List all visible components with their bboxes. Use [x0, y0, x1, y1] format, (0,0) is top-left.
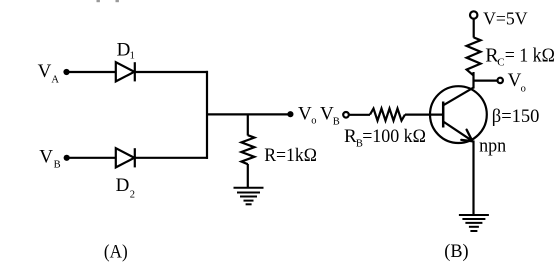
wire VB terminal to RB: [349, 114, 370, 116]
cropped caption mark right: [116, 0, 119, 2]
svg-text:(B): (B): [444, 241, 468, 262]
svg-text:2: 2: [130, 190, 135, 201]
wire RB to base: [405, 113, 443, 115]
label VA: [38, 61, 60, 86]
diode D1: [116, 62, 135, 81]
node Vo output: [287, 111, 293, 117]
svg-text:(A): (A): [104, 242, 128, 263]
svg-text:V=5V: V=5V: [483, 8, 527, 28]
svg-text:V: V: [298, 104, 312, 125]
wire RC to supply terminal: [473, 20, 475, 38]
label VB (A): [39, 146, 60, 170]
wire RC to collector: [472, 72, 474, 89]
svg-text:o: o: [521, 83, 526, 94]
label RC value: [485, 45, 555, 69]
wire Vo branch: [474, 79, 498, 81]
node VA input terminal: [63, 69, 69, 75]
wire VB to D2: [67, 157, 116, 159]
terminal VB (B): [343, 112, 349, 118]
svg-text:npn: npn: [479, 135, 507, 156]
wire D1 to bus: [135, 71, 208, 73]
svg-text:V: V: [38, 61, 52, 82]
wire resistor R bottom: [247, 164, 249, 188]
cropped caption mark left: [97, 0, 100, 2]
svg-text:A: A: [51, 75, 59, 86]
svg-text:β=150: β=150: [492, 106, 540, 127]
transistor Q1 (npn): [430, 86, 487, 143]
wire output horizontal: [207, 113, 290, 115]
node VB input terminal: [64, 155, 70, 161]
svg-text:=100 kΩ: =100 kΩ: [362, 126, 426, 147]
wire output bus vertical: [206, 71, 208, 159]
resistor R: [241, 135, 254, 164]
label D1: [117, 39, 135, 61]
wire resistor R top: [247, 114, 249, 135]
resistor RB: [370, 109, 405, 121]
svg-text:D: D: [116, 175, 130, 196]
terminal V supply: [470, 11, 477, 18]
label VB (B): [320, 104, 340, 128]
svg-text:C: C: [497, 56, 504, 68]
svg-text:B: B: [333, 117, 340, 128]
ground (B): [459, 215, 489, 231]
terminal Vo (B): [498, 78, 503, 83]
resistor RC: [467, 37, 481, 75]
svg-text:D: D: [117, 39, 131, 60]
label Vo (B): [508, 70, 526, 94]
svg-text:1: 1: [130, 51, 135, 62]
wire VA to D1: [67, 71, 116, 73]
diode D2: [116, 148, 135, 167]
wire D2 to bus: [135, 157, 208, 159]
svg-text:B: B: [54, 159, 61, 170]
svg-text:o: o: [311, 116, 316, 127]
svg-text:= 1 kΩ: = 1 kΩ: [505, 45, 555, 67]
svg-text:R=1kΩ: R=1kΩ: [264, 145, 317, 166]
ground (A): [234, 188, 264, 205]
svg-text:V: V: [39, 146, 53, 167]
wire emitter: [472, 141, 474, 215]
label Vo (A): [298, 104, 316, 127]
label RB value: [344, 126, 426, 150]
label D2: [116, 175, 135, 200]
svg-text:V: V: [508, 70, 522, 91]
